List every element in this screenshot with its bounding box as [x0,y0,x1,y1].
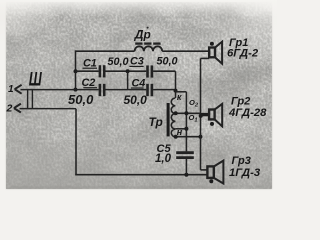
svg-text:50,0: 50,0 [68,92,94,107]
svg-text:50,0: 50,0 [108,56,129,68]
node tap dot on winding [174,111,178,115]
speaker Gr2 cone [215,104,223,127]
svg-text:1: 1 [8,84,14,95]
wire link between rows [127,71,129,89]
transformer Tr winding [171,98,175,137]
wire speaker3 top stub [201,169,208,171]
wire down-left vertical [75,109,77,175]
wire bottom long [75,174,207,176]
node bottom tap meets right bus [199,135,203,139]
wire tap O to right bus [175,112,200,114]
wire row1 right segment to corner [153,70,175,72]
speaker Gr1 cone [215,42,222,64]
svg-text:6ГД-2: 6ГД-2 [227,47,259,59]
svg-text:4ГД-28: 4ГД-28 [228,107,267,119]
svg-text:1ГД-3: 1ГД-3 [229,167,261,179]
capacitor C3 [148,65,152,77]
wire speaker1 bottom stub [201,57,210,59]
speaker Gr1 driver square [209,48,215,58]
node junction row1/bus [74,69,78,73]
wire winding bottom to right bus [175,136,200,138]
node tap crossing C5 line [184,111,188,115]
node winding bottom dot [174,135,178,139]
svg-text:Гр2: Гр2 [231,95,250,107]
svg-text:С3: С3 [130,56,144,68]
wire inductor to speaker Gr1 [162,50,209,52]
wire k-branch to C5 line [176,91,187,93]
wire C5 feed vertical [185,92,187,152]
node stub dot [199,114,203,118]
wire tap tick to C5 line [175,128,186,130]
node junction row2/bus [74,88,78,92]
transformer Tr core bar [167,103,170,136]
svg-text:1,0: 1,0 [155,153,172,165]
node junction C5 bottom / bottom wire [184,173,188,177]
speaker Gr2 driver square [209,110,215,120]
capacitor C2 [100,84,104,96]
ink speck [147,27,149,29]
svg-text:Др: Др [134,27,151,41]
wire terminal 2 horizontal [20,108,77,110]
svg-text:Гр3: Гр3 [232,155,251,167]
wire row2 right segment [153,89,175,91]
capacitor C4 [148,84,152,96]
paper background [0,0,277,198]
svg-text:Ш: Ш [29,68,43,90]
node speaker Gr1 polarity dot [210,42,214,46]
wire row2 middle segment [105,89,146,91]
speaker Gr3 driver square [207,166,213,178]
node junction rows meet [174,89,178,93]
wire row1 middle segment [105,70,146,72]
node speaker Gr2 polarity dot [210,122,214,126]
svg-text:н: н [177,127,183,137]
svg-text:2: 2 [6,103,13,115]
wire row2 from terminal 1 [21,89,99,91]
wire top rail from bus corner to inductor [76,50,135,52]
node tick dot [184,127,188,131]
inductor Dr winding humps [135,46,163,51]
wire C5 bottom lead [185,159,187,175]
wire row1 left segment [76,70,99,72]
svg-text:Тр: Тр [149,115,163,129]
capacitor C1 [100,65,104,77]
terminal arrow 2 [14,104,21,113]
speaker Gr3 cone [214,161,224,184]
capacitor C5 [176,153,194,158]
wire right return bus vertical [200,58,202,169]
inductor Dr core dashes [135,42,160,44]
node junction link/row1 [126,69,130,73]
node speaker Gr3 polarity dot [209,179,213,183]
svg-text:50,0: 50,0 [124,93,148,107]
connector Sh contact ticks [28,90,33,109]
svg-text:С1: С1 [83,57,97,69]
svg-text:к: к [177,92,182,102]
wire left bus vertical [75,50,77,90]
svg-text:50,0: 50,0 [157,56,178,68]
wire speaker2 stub thick [201,113,210,116]
terminal arrow 1 [15,85,22,94]
wire vertical from row1 corner down to transformer top [175,71,177,98]
